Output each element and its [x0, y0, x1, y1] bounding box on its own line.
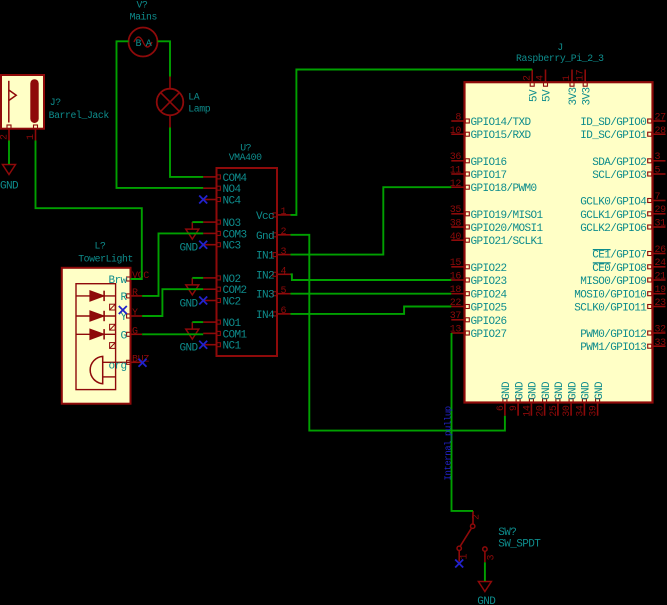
svg-text:A: A [146, 39, 152, 50]
relay pin 4 IN2 [256, 267, 291, 283]
svg-text:GND: GND [581, 381, 593, 400]
Pi pin 28 ID_SC/GPIO1 [580, 126, 666, 142]
svg-text:SW_SPDT: SW_SPDT [498, 539, 541, 551]
Pi pin 11 GPIO17 [450, 166, 507, 183]
Pi pin 29 GCLK1/GPIO5 [580, 205, 666, 222]
svg-text:19: 19 [655, 285, 667, 296]
Pi pin 22 GPIO25 [450, 298, 507, 315]
svg-text:GND: GND [0, 181, 19, 193]
svg-text:GND: GND [541, 381, 553, 400]
no-connect X on relay pin NC4 [199, 196, 207, 204]
svg-text:NO2: NO2 [223, 274, 241, 286]
lamp LA [157, 76, 211, 128]
svg-text:IN3: IN3 [256, 290, 274, 302]
Pi pin 18 GPIO24 [450, 285, 508, 302]
svg-text:NO1: NO1 [223, 318, 242, 330]
relay pin COM3 [203, 229, 246, 241]
relay module U? VMA400 [217, 142, 278, 356]
relay pin 2 Gnd [256, 227, 291, 243]
svg-text:GPIO23: GPIO23 [471, 276, 507, 288]
svg-text:GPIO20/MOSI1: GPIO20/MOSI1 [471, 223, 544, 235]
svg-text:NO4: NO4 [223, 184, 242, 196]
Pi pin 16 GPIO23 [450, 272, 507, 289]
svg-text:GND: GND [179, 243, 198, 255]
svg-text:20: 20 [536, 405, 547, 417]
wire relay NO2 to ground [192, 277, 203, 279]
svg-text:IN2: IN2 [256, 270, 274, 282]
Pi pin 33 PWM1/GPIO13 [580, 338, 666, 354]
relay pin NO2 [203, 274, 240, 286]
Pi pin 7 GCLK0/GPIO4 [580, 192, 665, 209]
svg-text:1: 1 [460, 554, 471, 560]
svg-text:GPIO14/TXD: GPIO14/TXD [471, 117, 532, 129]
svg-text:GPIO15/RXD: GPIO15/RXD [471, 130, 532, 142]
net label Internal_pullup [443, 406, 453, 480]
no-connect X on relay pin NC3 [199, 241, 207, 249]
switch pin 2 [471, 511, 483, 529]
svg-text:NO3: NO3 [223, 218, 241, 230]
svg-text:J?: J? [50, 97, 61, 108]
wire relay IN4 to Pi GPIO25 [291, 307, 452, 314]
wire Mains B to relay NO4 [117, 41, 204, 188]
svg-text:32: 32 [655, 325, 667, 336]
ground symbol at switch [477, 575, 496, 605]
tower light pin VCC [108, 271, 149, 287]
svg-text:G: G [120, 330, 126, 342]
svg-text:MISO0/GPIO9: MISO0/GPIO9 [580, 276, 646, 288]
svg-text:R: R [132, 288, 138, 299]
svg-text:R: R [120, 292, 127, 304]
svg-text:18: 18 [450, 285, 462, 296]
relay pin 5 IN3 [256, 286, 291, 302]
svg-text:1: 1 [26, 134, 37, 140]
wire relay NO3 to ground [192, 221, 203, 223]
switch pin 3 [483, 547, 498, 562]
svg-text:4: 4 [281, 267, 287, 278]
svg-text:GND: GND [528, 381, 540, 400]
tower light pin Y [120, 308, 142, 324]
svg-text:Mains: Mains [130, 12, 158, 23]
buzzer in tower light [90, 356, 130, 383]
svg-text:IN1: IN1 [256, 251, 275, 263]
svg-text:24: 24 [655, 258, 667, 269]
Pi pin 30 GND [562, 381, 579, 417]
svg-text:MOSI0/GPIO10: MOSI0/GPIO10 [574, 290, 646, 302]
barrel jack pin 1 [35, 129, 37, 141]
svg-text:GPIO21/SCLK1: GPIO21/SCLK1 [471, 236, 544, 248]
svg-text:GND: GND [594, 381, 606, 400]
svg-text:5: 5 [281, 286, 287, 297]
svg-text:Vcc: Vcc [256, 211, 274, 223]
wire Mains A to lamp [158, 41, 171, 76]
svg-text:16: 16 [450, 272, 462, 283]
svg-text:1: 1 [281, 207, 287, 218]
tower light L? TowerLight [62, 241, 133, 404]
Pi pin 5 SCL/GPIO3 [592, 166, 665, 183]
LED D1 in tower light [76, 291, 116, 310]
wire relay NO1 to ground [192, 321, 203, 323]
svg-text:36: 36 [450, 152, 462, 163]
svg-text:4: 4 [536, 75, 547, 81]
svg-text:5V: 5V [542, 89, 554, 102]
svg-text:GND: GND [179, 343, 198, 355]
svg-text:14: 14 [522, 405, 533, 417]
svg-text:2: 2 [522, 75, 533, 81]
ground symbol [179, 222, 198, 255]
svg-text:GND: GND [514, 381, 526, 400]
svg-text:12: 12 [450, 179, 462, 190]
svg-text:GCLK2/GPIO6: GCLK2/GPIO6 [580, 223, 646, 235]
Pi pin 13 GPIO27 [450, 325, 507, 342]
svg-text:37: 37 [450, 311, 462, 322]
svg-text:2: 2 [472, 514, 483, 520]
svg-text:IN4: IN4 [256, 310, 275, 322]
Pi pin 19 MOSI0/GPIO10 [574, 285, 666, 302]
svg-text:NC3: NC3 [223, 241, 241, 253]
svg-text:GPIO26: GPIO26 [471, 316, 507, 328]
Pi pin 15 GPIO22 [450, 258, 507, 275]
svg-text:31: 31 [655, 219, 667, 230]
wire relay IN2 to Pi GPIO23 [291, 274, 452, 280]
Pi pin 34 GND [575, 381, 592, 417]
Pi pin 35 GPIO19/MISO1 [450, 205, 544, 222]
svg-text:V?: V? [137, 0, 148, 11]
svg-text:COM2: COM2 [223, 285, 247, 297]
svg-text:SW?: SW? [498, 527, 516, 539]
Pi pin 39 GND [589, 381, 606, 417]
svg-text:2: 2 [0, 134, 11, 140]
Pi pin 1 3V3 [562, 70, 580, 106]
ground symbol [179, 278, 198, 311]
Pi pin 8 GPIO14/TXD [451, 113, 531, 130]
switch pin 1 [457, 546, 471, 561]
wire tower Y to relay COM2 [142, 289, 203, 316]
switch SW? SW_SPDT [498, 527, 541, 551]
wire jack pin1 to tower VCC [36, 141, 142, 280]
svg-text:ID_SC/GPIO1: ID_SC/GPIO1 [580, 130, 647, 142]
Pi pin 3 SDA/GPIO2 [592, 152, 665, 169]
Pi pin 31 GCLK2/GPIO6 [580, 219, 666, 236]
relay pin NC4 [203, 196, 241, 208]
svg-text:PWM1/GPIO13: PWM1/GPIO13 [580, 342, 646, 354]
svg-text:GPIO25: GPIO25 [471, 303, 507, 315]
svg-text:Lamp: Lamp [188, 103, 210, 114]
svg-text:GPIO24: GPIO24 [471, 290, 508, 302]
Pi pin 40 GPIO21/SCLK1 [450, 232, 544, 248]
svg-text:org: org [108, 360, 126, 372]
svg-text:NC4: NC4 [223, 196, 242, 208]
svg-text:5V: 5V [528, 89, 540, 102]
svg-text:NC1: NC1 [223, 341, 242, 353]
svg-text:17: 17 [575, 69, 586, 81]
svg-text:1: 1 [562, 75, 573, 81]
svg-text:9: 9 [509, 405, 520, 411]
wire jack pin2 to GND [8, 141, 10, 165]
svg-text:GPIO22: GPIO22 [471, 263, 507, 275]
svg-text:Gnd: Gnd [256, 231, 274, 243]
wire relay IN1 to Pi GPIO18 [291, 187, 452, 254]
svg-text:8: 8 [455, 113, 461, 124]
svg-text:COM1: COM1 [223, 329, 248, 341]
svg-text:Barrel_Jack: Barrel_Jack [49, 110, 110, 121]
relay pin 3 IN1 [256, 247, 291, 263]
Pi pin 36 GPIO16 [450, 152, 507, 169]
Pi pin 26 CE1/GPIO7 [592, 245, 666, 262]
connector J? Barrel_Jack [0, 75, 109, 141]
Pi pin 17 3V3 [575, 69, 593, 105]
svg-text:38: 38 [450, 219, 462, 230]
svg-text:6: 6 [281, 306, 287, 317]
LED D3 in tower light [76, 329, 116, 348]
svg-text:28: 28 [655, 126, 667, 137]
svg-text:3V3: 3V3 [581, 87, 593, 105]
relay pin NC2 [203, 297, 240, 309]
svg-text:GPIO16: GPIO16 [471, 157, 507, 169]
ground symbol [179, 322, 198, 355]
Pi pin 10 GPIO15/RXD [450, 126, 532, 142]
svg-text:7: 7 [655, 192, 661, 203]
relay pin 1 Vcc [256, 207, 291, 223]
Pi pin 32 PWM0/GPIO12 [580, 325, 666, 342]
svg-text:Y: Y [132, 308, 138, 319]
svg-text:SCLK0/GPIO11: SCLK0/GPIO11 [574, 303, 647, 315]
switch lever [460, 529, 471, 547]
AC voltage source V1 Mains [129, 0, 158, 56]
svg-text:SDA/GPIO2: SDA/GPIO2 [592, 157, 646, 169]
wire relay IN3 to Pi GPIO24 [291, 293, 452, 295]
svg-text:TowerLight: TowerLight [78, 253, 133, 264]
relay pin COM2 [203, 285, 246, 297]
wire relay Vcc to Pi 5V pin2 [291, 70, 533, 215]
relay pin NO3 [203, 218, 240, 230]
svg-text:5: 5 [655, 166, 661, 177]
Pi pin 24 CE0/GPIO8 [592, 258, 666, 275]
svg-text:VCC: VCC [132, 271, 149, 282]
svg-text:6: 6 [496, 405, 507, 411]
svg-text:34: 34 [575, 405, 586, 417]
svg-text:GND: GND [477, 596, 496, 605]
svg-text:40: 40 [450, 232, 462, 243]
svg-text:33: 33 [655, 338, 667, 349]
svg-text:CE1/GPIO7: CE1/GPIO7 [592, 250, 646, 262]
no-connect X on switch pin 1 [455, 560, 463, 568]
Pi pin 21 MISO0/GPIO9 [580, 272, 666, 289]
Pi pin 23 SCLK0/GPIO11 [574, 298, 666, 315]
svg-text:35: 35 [450, 205, 462, 216]
svg-text:CE0/GPIO8: CE0/GPIO8 [592, 263, 646, 275]
Pi pin 2 5V [522, 70, 540, 103]
svg-text:3: 3 [487, 555, 498, 561]
barrel jack pin 2 [8, 129, 10, 141]
svg-text:COM3: COM3 [223, 229, 247, 241]
Pi pin 20 GND [536, 381, 553, 417]
relay pin NO1 [203, 318, 241, 330]
svg-text:GND: GND [501, 381, 513, 400]
svg-text:Internal_pullup: Internal_pullup [443, 406, 453, 480]
no-connect X on relay pin NC1 [199, 341, 207, 349]
Pi pin 9 GND [509, 381, 526, 416]
svg-text:GPIO17: GPIO17 [471, 170, 507, 182]
svg-text:GCLK0/GPIO4: GCLK0/GPIO4 [580, 197, 647, 209]
wire switch pin3 to GND [484, 562, 486, 581]
no-connect X on tower pin Y [119, 306, 127, 314]
Pi pin 27 ID_SD/GPIO0 [580, 113, 666, 130]
Pi pin 38 GPIO20/MOSI1 [450, 219, 544, 236]
svg-text:10: 10 [450, 126, 462, 137]
svg-text:27: 27 [655, 113, 667, 124]
svg-text:GND: GND [179, 298, 198, 310]
wire Pi GPIO27 to switch pin2 [452, 333, 474, 511]
svg-text:23: 23 [655, 298, 667, 309]
svg-text:2: 2 [281, 227, 287, 238]
tower light pin R [120, 288, 142, 304]
svg-text:VMA400: VMA400 [229, 152, 262, 163]
Pi pin 37 GPIO26 [450, 311, 507, 328]
Pi pin 14 GND [522, 381, 539, 417]
Pi pin 6 GND [496, 381, 513, 416]
Pi pin 4 5V [536, 70, 554, 103]
relay pin COM4 [203, 173, 247, 185]
wire relay Gnd to Pi GND pin6 [291, 235, 505, 431]
no-connect X on tower pin BUZ [139, 359, 147, 367]
svg-text:LA: LA [188, 91, 199, 102]
svg-text:L?: L? [95, 241, 106, 252]
svg-text:GCLK1/GPIO5: GCLK1/GPIO5 [580, 210, 646, 222]
ground symbol at barrel jack [0, 158, 19, 193]
tower light pin BUZ [108, 355, 149, 373]
svg-text:ID_SD/GPIO0: ID_SD/GPIO0 [580, 117, 646, 129]
svg-text:GPIO27: GPIO27 [471, 329, 507, 341]
svg-text:B: B [136, 39, 142, 50]
relay pin NC1 [203, 341, 241, 353]
svg-text:3: 3 [655, 152, 661, 163]
svg-text:15: 15 [450, 258, 462, 269]
svg-text:25: 25 [549, 405, 560, 417]
relay pin COM1 [203, 329, 247, 341]
svg-text:SCL/GPIO3: SCL/GPIO3 [592, 170, 646, 182]
svg-text:3: 3 [281, 247, 287, 258]
svg-text:3V3: 3V3 [568, 87, 580, 105]
svg-text:COM4: COM4 [223, 173, 248, 185]
svg-text:GND: GND [567, 381, 579, 400]
svg-text:29: 29 [655, 205, 667, 216]
LED D2 in tower light [76, 311, 116, 330]
svg-text:Raspberry_Pi_2_3: Raspberry_Pi_2_3 [516, 53, 604, 64]
Pi pin 12 GPIO18/PWM0 [450, 179, 537, 195]
svg-text:22: 22 [450, 298, 462, 309]
svg-text:21: 21 [655, 272, 667, 283]
svg-text:30: 30 [562, 405, 573, 417]
svg-text:26: 26 [655, 245, 667, 256]
tower light pin G [120, 327, 142, 343]
wire tower R to relay COM3 [142, 233, 203, 296]
svg-text:PWM0/GPIO12: PWM0/GPIO12 [580, 329, 646, 341]
svg-text:Brw: Brw [108, 275, 127, 287]
Pi pin 25 GND [549, 381, 566, 417]
svg-text:NC2: NC2 [223, 297, 241, 309]
IC J Raspberry_Pi_2_3 [465, 42, 653, 403]
svg-text:J: J [557, 42, 562, 53]
no-connect X on relay pin NC2 [199, 297, 207, 305]
relay pin NC3 [203, 241, 240, 253]
svg-text:G: G [132, 327, 138, 338]
relay pin NO4 [203, 184, 241, 196]
wire tower G to relay COM1 [142, 333, 203, 335]
svg-text:GND: GND [554, 381, 566, 400]
relay pin 6 IN4 [256, 306, 291, 322]
svg-text:11: 11 [450, 166, 462, 177]
svg-text:39: 39 [589, 405, 600, 417]
svg-text:GPIO19/MISO1: GPIO19/MISO1 [471, 210, 544, 222]
wire lamp to relay COM4 [170, 128, 203, 177]
svg-text:GPIO18/PWM0: GPIO18/PWM0 [471, 183, 537, 195]
